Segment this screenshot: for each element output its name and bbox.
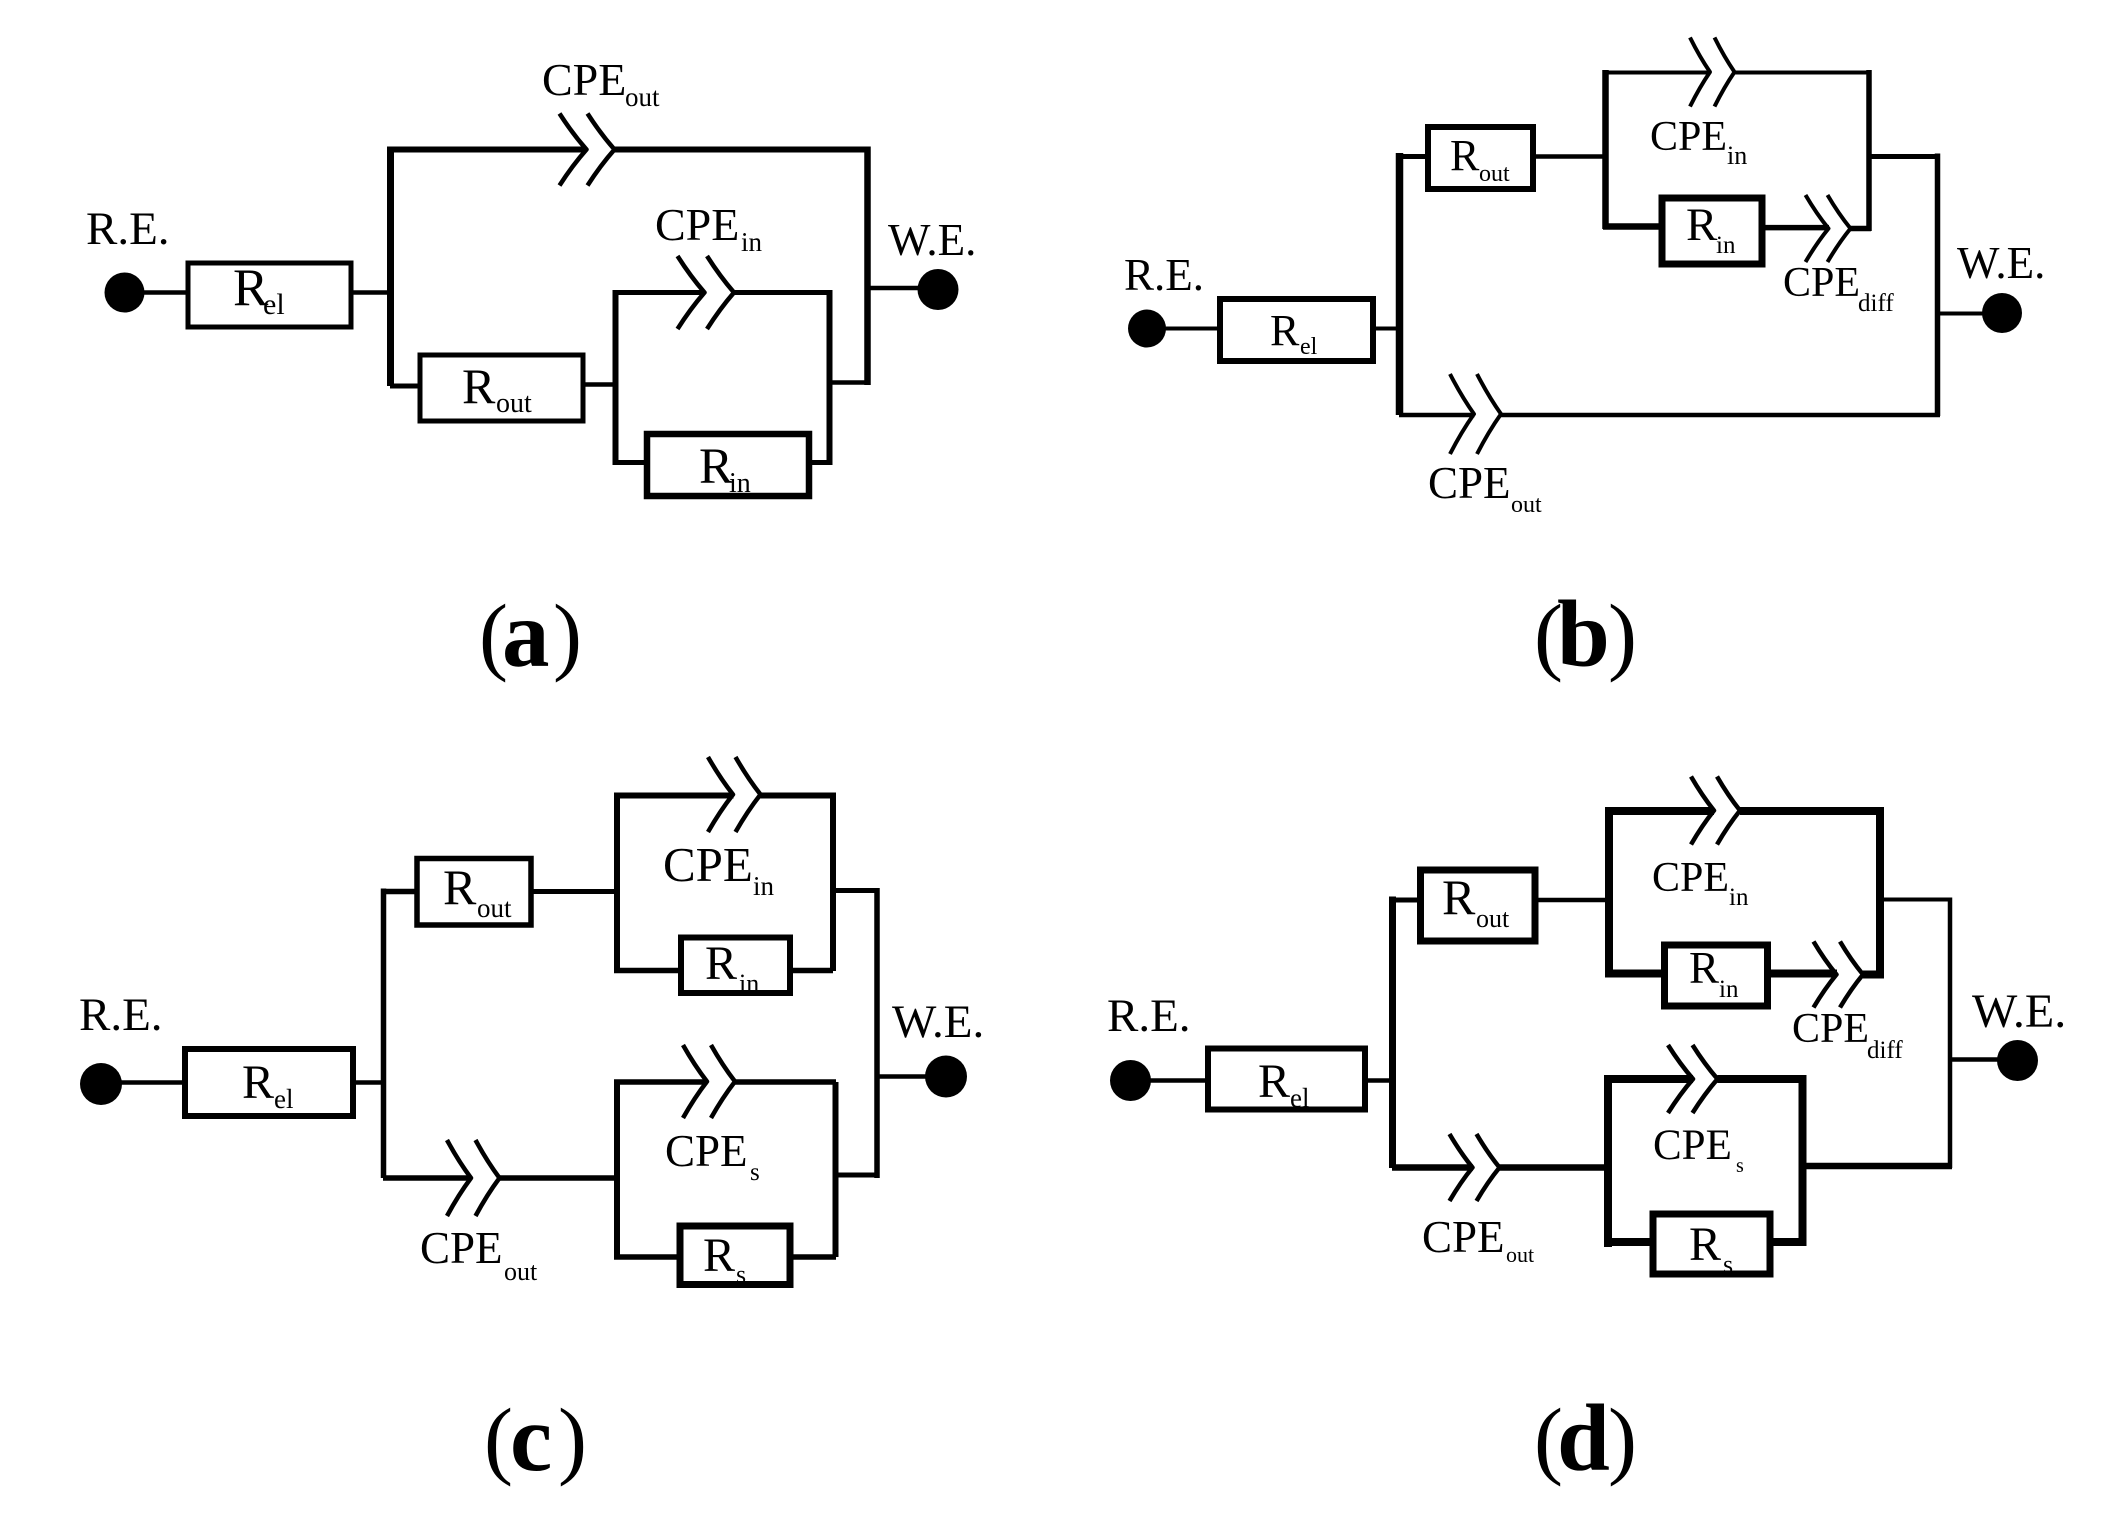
wire d: outer vertical (1948, 898, 1953, 1169)
label CPE_out (d) (1422, 1212, 1534, 1267)
svg-text:out: out (1511, 492, 1542, 518)
wire a: Rout to inner parallel (583, 382, 617, 387)
wire d: R.E. to Rel (1150, 1078, 1209, 1083)
resistor Rin (a) (647, 434, 809, 499)
panel label (a) (479, 581, 582, 687)
wire c: bottom parallel left vertical (614, 1082, 620, 1259)
wire a: inner bottom wire left (613, 460, 648, 465)
terminal W.E. node (c) (925, 1056, 967, 1098)
svg-text:out: out (1506, 1242, 1534, 1267)
svg-text:out: out (625, 82, 660, 112)
svg-text:R: R (1686, 199, 1718, 251)
wire b: Rin to CPEdiff (1762, 225, 1829, 231)
svg-text:in: in (1719, 976, 1739, 1003)
wire b: outer vertical (1935, 154, 1941, 417)
wire c: bottom parallel top wire left (614, 1079, 708, 1085)
wire d: top parallel right vertical (1876, 807, 1884, 978)
CPE symbol CPE_out (b) (1450, 374, 1501, 454)
svg-text:R.E.: R.E. (1124, 250, 1204, 300)
wire c: top branch to Rout (383, 889, 418, 895)
svg-text:in: in (1716, 232, 1736, 259)
svg-text:CPE: CPE (420, 1223, 503, 1273)
svg-text:s: s (750, 1159, 760, 1186)
svg-text:R: R (1258, 1055, 1290, 1108)
wire d: CPEdiff to right vertical (1863, 971, 1884, 979)
wire c: Rel to junction (353, 1080, 384, 1085)
resistor Rin (c) (681, 937, 790, 998)
wire d: bottom parallel top wire right (1718, 1075, 1807, 1083)
wire a: connector to right vertical (829, 380, 868, 385)
svg-text:R: R (1689, 943, 1719, 993)
svg-text:in: in (739, 969, 759, 998)
wire a: W.E. stub (867, 286, 918, 291)
wire c: Rout to top parallel (531, 889, 618, 894)
resistor Rout (d) (1421, 869, 1536, 941)
CPE symbol CPE_in (d) (1691, 777, 1740, 845)
terminal R.E. node (a) (105, 273, 145, 313)
wire b: bottom branch left (1399, 413, 1475, 418)
wire b: inner right vertical (1866, 70, 1872, 231)
svg-text:el: el (1290, 1083, 1310, 1113)
wire c: bottom parallel bottom wire left (614, 1254, 681, 1260)
svg-text:W.E.: W.E. (892, 996, 984, 1048)
svg-text:out: out (1476, 904, 1510, 933)
svg-text:R.E.: R.E. (79, 989, 163, 1041)
svg-text:d: d (1557, 1385, 1610, 1491)
label CPE_s (d) (1653, 1122, 1744, 1177)
svg-text:el: el (1300, 334, 1318, 360)
label CPE_in (b) (1650, 114, 1747, 170)
svg-text:s: s (1736, 1155, 1744, 1177)
svg-text:W.E.: W.E. (1957, 238, 2045, 288)
wire c: top exit wire (833, 888, 877, 893)
wire a: top branch right (615, 147, 868, 153)
svg-text:R.E.: R.E. (86, 203, 170, 255)
svg-text:el: el (263, 288, 285, 321)
wire c: bottom parallel bottom wire right (790, 1254, 836, 1260)
wire d: top parallel top wire left (1605, 807, 1714, 815)
label CPE_out (b) (1428, 458, 1542, 518)
svg-text:R: R (1270, 306, 1300, 355)
svg-text:s: s (736, 1260, 746, 1289)
svg-text:R: R (703, 1229, 735, 1282)
svg-text:W.E.: W.E. (1972, 985, 2066, 1038)
CPE symbol CPE_out (a) (560, 114, 615, 186)
wire a: inner top wire left (613, 290, 705, 295)
svg-text:CPE: CPE (1792, 1006, 1869, 1052)
svg-text:c: c (510, 1385, 552, 1491)
svg-text:out: out (477, 893, 512, 923)
wire d: Rel to junction (1365, 1078, 1390, 1083)
resistor Rout (a) (420, 355, 583, 421)
terminal R.E. node (b) (1128, 310, 1166, 348)
wire c: top parallel left vertical (614, 793, 620, 972)
panel label (b) (1534, 581, 1637, 687)
wire c: top parallel top wire right (761, 793, 834, 799)
wire a: junction vertical (387, 147, 394, 387)
wire c: top parallel bottom wire right (790, 968, 833, 974)
svg-text:CPE: CPE (663, 837, 753, 892)
label CPE_out (a) (542, 54, 660, 112)
wire d: bottom branch right (1500, 1164, 1613, 1171)
wire a: top branch left (390, 147, 587, 153)
resistor Rel (d) (1208, 1049, 1365, 1114)
wire d: top parallel bottom wire left (1605, 970, 1665, 978)
wire b: R.E. to Rel (1165, 327, 1222, 331)
label CPE_in (d) (1652, 855, 1749, 911)
svg-text:in: in (753, 871, 775, 901)
wire d: bottom parallel top wire left (1604, 1075, 1693, 1083)
terminal W.E. node (a) (918, 269, 959, 310)
svg-text:in: in (1729, 884, 1749, 911)
svg-text:CPE: CPE (1653, 1122, 1732, 1169)
wire c: junction vertical (381, 889, 387, 1179)
wire c: top parallel top wire left (614, 793, 734, 799)
CPE symbol CPE_out (c) (447, 1140, 500, 1216)
label CPE_out (c) (420, 1223, 538, 1286)
svg-text:in: in (741, 227, 763, 257)
wire d: W.E. stub (1950, 1057, 1999, 1062)
label CPE_s (c) (665, 1126, 760, 1186)
svg-text:out: out (496, 388, 532, 419)
svg-text:(: ( (484, 1390, 513, 1487)
svg-text:out: out (504, 1257, 538, 1286)
wire c: bottom parallel right vertical (833, 1082, 839, 1257)
svg-text:): ) (1608, 586, 1637, 683)
wire d: bottom exit wire (1803, 1163, 1952, 1170)
wire c: bottom branch right (500, 1175, 619, 1181)
wire a: inner top wire right (734, 290, 832, 295)
CPE symbol CPE_diff (d) (1814, 942, 1864, 1008)
CPE symbol CPE_in (b) (1690, 38, 1735, 107)
resistor Rin (d) (1665, 943, 1768, 1006)
wire a: inner left vertical (613, 290, 619, 465)
svg-text:in: in (1727, 141, 1747, 170)
wire b: W.E. stub (1937, 312, 1984, 316)
wire b: inner bottom wire left (1603, 223, 1663, 230)
svg-text:CPE: CPE (542, 54, 626, 105)
wire d: top parallel left vertical (1605, 807, 1613, 978)
wire a: inner right vertical (827, 290, 833, 465)
CPE symbol CPE_in (a) (678, 256, 735, 329)
svg-text:R: R (699, 439, 733, 495)
wire d: bottom parallel left vertical (1604, 1075, 1612, 1247)
svg-text:): ) (553, 586, 582, 683)
wire b: top branch to Rout (1399, 154, 1429, 159)
wire c: W.E. stub (877, 1074, 926, 1079)
svg-text:CPE: CPE (1422, 1212, 1505, 1262)
label CPE_diff (d) (1792, 1006, 1903, 1064)
wire d: top branch to Rout (1392, 898, 1421, 903)
resistor Rel (c) (185, 1049, 353, 1116)
resistor Rout (c) (417, 859, 531, 926)
wire c: top parallel right vertical (830, 793, 836, 972)
svg-text:CPE: CPE (1650, 114, 1727, 160)
CPE symbol CPE_s (d) (1668, 1045, 1718, 1113)
svg-text:R: R (443, 859, 477, 915)
svg-text:R: R (1450, 131, 1480, 180)
wire c: top parallel bottom wire left (614, 968, 682, 974)
wire c: bottom exit wire (836, 1173, 877, 1178)
panel label (c) (484, 1385, 587, 1491)
svg-text:out: out (1479, 161, 1510, 187)
svg-text:R: R (1689, 1218, 1721, 1271)
resistor Rs (c) (680, 1226, 790, 1289)
svg-text:s: s (1723, 1250, 1733, 1279)
svg-text:CPE: CPE (655, 199, 739, 250)
wire c: bottom parallel top wire right (735, 1079, 836, 1085)
svg-text:R.E.: R.E. (1107, 990, 1191, 1042)
wire a: Rel to junction (351, 290, 391, 295)
resistor Rel (a) (188, 259, 351, 327)
wire d: bottom branch left (1392, 1164, 1473, 1171)
wire d: top exit wire (1876, 898, 1952, 902)
wire b: exit to outer vertical (1867, 154, 1940, 159)
CPE symbol CPE_in (c) (708, 757, 761, 832)
CPE symbol CPE_out (d) (1450, 1134, 1500, 1201)
wire d: Rin to CPEdiff (1768, 970, 1838, 978)
svg-text:R: R (705, 937, 737, 990)
svg-text:diff: diff (1867, 1037, 1903, 1064)
svg-text:W.E.: W.E. (888, 215, 976, 265)
svg-text:R: R (462, 358, 496, 414)
svg-text:b: b (1557, 581, 1610, 687)
wire c: R.E. to Rel (121, 1080, 187, 1085)
CPE symbol CPE_s (c) (683, 1045, 735, 1118)
resistor Rout (b) (1428, 127, 1533, 189)
wire c: bottom branch left (383, 1175, 472, 1181)
wire b: Rel to junction (1373, 327, 1397, 331)
label CPE_in (a) (655, 199, 763, 257)
wire c: outer vertical (874, 888, 880, 1178)
svg-text:CPE: CPE (1783, 260, 1860, 306)
svg-text:in: in (729, 468, 751, 499)
panel label (d) (1534, 1385, 1637, 1491)
wire a: right vertical (864, 147, 871, 386)
svg-text:CPE: CPE (665, 1126, 748, 1176)
terminal W.E. node (b) (1982, 293, 2022, 333)
wire a: bottom branch to Rout (390, 384, 421, 389)
svg-text:): ) (1608, 1390, 1637, 1487)
wire a: R.E. to Rel (144, 290, 190, 295)
svg-text:CPE: CPE (1652, 855, 1729, 901)
svg-text:diff: diff (1858, 290, 1894, 317)
wire d: top parallel top wire right (1740, 807, 1884, 815)
wire d: bottom parallel right vertical (1799, 1075, 1807, 1246)
terminal R.E. node (d) (1110, 1060, 1151, 1101)
wire b: CPEdiff to inner right vertical (1851, 226, 1872, 232)
wire b: junction vertical (1396, 153, 1404, 415)
wire d: junction vertical (1389, 897, 1396, 1169)
wire b: inner top wire left (1603, 71, 1710, 75)
wire b: Rout to inner parallel (1533, 154, 1607, 159)
resistor Rel (b) (1220, 299, 1373, 361)
resistor Rin (b) (1662, 198, 1762, 264)
svg-text:R: R (1442, 869, 1476, 925)
svg-text:): ) (558, 1390, 587, 1487)
wire d: bottom parallel bottom wire right (1770, 1238, 1807, 1246)
terminal R.E. node (c) (80, 1063, 122, 1105)
wire d: bottom parallel bottom wire left (1604, 1238, 1654, 1246)
wire b: bottom branch right (1501, 413, 1940, 418)
svg-text:CPE: CPE (1428, 458, 1511, 508)
wire a: inner bottom wire right (808, 460, 832, 465)
CPE symbol CPE_diff (b) (1806, 195, 1851, 262)
svg-text:R: R (242, 1056, 274, 1109)
svg-text:a: a (502, 581, 550, 687)
wire b: inner top wire right (1735, 71, 1872, 75)
terminal W.E. node (d) (1997, 1040, 2038, 1081)
label CPE_in (c) (663, 837, 775, 901)
wire b: inner left vertical (1602, 70, 1609, 229)
resistor Rs (d) (1653, 1214, 1770, 1279)
svg-text:el: el (274, 1084, 294, 1114)
label CPE_diff (b) (1783, 260, 1894, 317)
wire d: Rout to top parallel (1535, 898, 1610, 903)
